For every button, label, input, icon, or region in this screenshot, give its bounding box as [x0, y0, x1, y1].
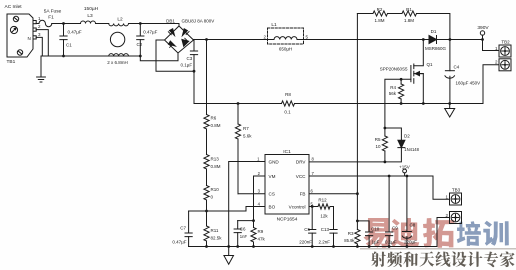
svg-text:0.8M: 0.8M [211, 123, 221, 128]
svg-text:1µF: 1µF [372, 240, 380, 245]
wire fuse to C1 node [52, 23, 81, 25]
svg-text:0.1: 0.1 [284, 110, 291, 115]
svg-text:12k: 12k [320, 214, 328, 219]
svg-text:D2: D2 [404, 134, 410, 139]
svg-text:R11: R11 [211, 228, 219, 233]
svg-text:C13: C13 [321, 227, 330, 232]
watermark big text 易迪拓培训 [364, 218, 391, 248]
svg-text:D1: D1 [431, 29, 437, 34]
svg-text:5.6k: 5.6k [243, 134, 252, 139]
svg-text:Q1: Q1 [427, 62, 434, 67]
watermark small text 射频和天线设计专家 [371, 252, 386, 267]
svg-text:R8: R8 [285, 92, 291, 97]
svg-text:FB: FB [300, 192, 306, 197]
svg-text:R12: R12 [318, 198, 327, 203]
svg-text:CS: CS [269, 192, 275, 197]
svg-text:0.47µF: 0.47µF [172, 240, 186, 245]
wire L3 to L2 [96, 23, 109, 25]
wire to TB2 pin1 [483, 40, 500, 51]
svg-text:GBU8J 8A 800V: GBU8J 8A 800V [182, 18, 215, 23]
svg-text:1nF: 1nF [240, 234, 248, 239]
capacitor C2 0.47uF [139, 22, 142, 25]
svg-text:L1: L1 [271, 22, 277, 28]
svg-text:F1: F1 [48, 15, 54, 21]
svg-text:L3: L3 [87, 13, 93, 19]
svg-text:220nF: 220nF [299, 240, 312, 245]
wire pin4 BO to divider bus [246, 207, 265, 212]
svg-text:Vcontrol: Vcontrol [289, 205, 306, 210]
svg-text:R1: R1 [406, 7, 412, 12]
svg-text:DB1: DB1 [166, 18, 175, 23]
wire pin7 VCC to +15V / TB3 [309, 176, 450, 199]
svg-text:C2: C2 [137, 42, 143, 47]
svg-text:390V: 390V [477, 25, 489, 31]
wire pin1 GND to ground bus [229, 162, 265, 247]
wire pin2 VM down [254, 176, 266, 221]
svg-text:2 x 6.8mH: 2 x 6.8mH [107, 60, 128, 65]
svg-text:C8: C8 [410, 223, 416, 228]
svg-text:MSR860G: MSR860G [425, 46, 447, 51]
svg-text:85.9k: 85.9k [344, 238, 355, 243]
svg-text:47k: 47k [258, 237, 266, 242]
svg-text:1N4148: 1N4148 [404, 147, 419, 152]
svg-text:160µF 450V: 160µF 450V [456, 81, 481, 86]
svg-text:0.1µF: 0.1µF [181, 63, 193, 68]
svg-text:R9: R9 [258, 229, 264, 234]
wire L2 to C2 and bridge [129, 24, 180, 27]
svg-text:0.1µF: 0.1µF [385, 240, 397, 245]
svg-text:TB2: TB2 [501, 40, 510, 45]
svg-text:BO: BO [269, 205, 276, 210]
wire gate [385, 79, 411, 128]
svg-text:C1: C1 [66, 43, 72, 48]
svg-text:N: N [28, 36, 31, 41]
neutral wire [41, 53, 178, 61]
svg-text:NCP1654: NCP1654 [277, 217, 298, 223]
svg-text:R3: R3 [348, 231, 354, 236]
ground symbol control [224, 247, 234, 265]
watermark underline [360, 248, 516, 249]
wire TB1 pin2 to neutral [36, 30, 48, 56]
svg-text:C10: C10 [371, 227, 380, 232]
earth ground below TB1 [37, 56, 46, 82]
connector TB1 [7, 14, 36, 57]
svg-text:AC Inlet: AC Inlet [5, 4, 23, 10]
svg-text:2.2nF: 2.2nF [318, 240, 330, 245]
svg-text:GND: GND [269, 160, 280, 165]
wire TB1 pin1 to fuse [36, 23, 39, 25]
svg-text:R13: R13 [211, 157, 220, 162]
svg-text:1.8M: 1.8M [404, 18, 414, 23]
wire CS filter node [238, 220, 254, 222]
svg-text:R6: R6 [211, 116, 217, 121]
wire pin3 CS to R7 [238, 193, 265, 195]
svg-text:0.8M: 0.8M [211, 164, 221, 169]
svg-text:10: 10 [375, 144, 381, 149]
svg-text:R4: R4 [390, 85, 396, 90]
svg-text:DRV: DRV [296, 160, 307, 165]
capacitor C3 0.1uF [193, 40, 196, 72]
wire pin8 DRV [309, 161, 385, 163]
svg-text:220µF: 220µF [404, 240, 417, 245]
svg-text:0.47µF: 0.47µF [143, 30, 157, 35]
svg-text:5A Fuse: 5A Fuse [44, 9, 62, 15]
wire FB column [356, 14, 358, 230]
svg-text:L2: L2 [117, 17, 123, 23]
wire VM bus [189, 210, 246, 212]
svg-text:SPP20N60S5: SPP20N60S5 [380, 66, 408, 71]
svg-text:TB1: TB1 [7, 59, 16, 65]
svg-text:150µH: 150µH [84, 6, 99, 12]
svg-text:VCC: VCC [296, 174, 306, 179]
svg-text:1.8M: 1.8M [374, 18, 384, 23]
svg-text:R2: R2 [377, 7, 383, 12]
svg-text:82.5k: 82.5k [211, 236, 223, 241]
svg-text:C3: C3 [187, 56, 193, 61]
svg-text:650µH: 650µH [279, 47, 292, 52]
capacitor C1 0.47uF [62, 22, 65, 25]
svg-text:R10: R10 [211, 187, 220, 192]
wire return rail [194, 65, 499, 104]
ground symbol at C4 [445, 104, 455, 118]
wire ground bus [189, 218, 450, 247]
svg-text:C9: C9 [392, 226, 398, 231]
svg-text:C7: C7 [180, 226, 186, 231]
wire main positive rail [194, 39, 483, 41]
wire bridge minus to C3 bottom [156, 40, 194, 71]
svg-text:0.47µF: 0.47µF [68, 30, 82, 35]
svg-text:R5: R5 [375, 137, 381, 142]
wire TB1 pin3 to neutral [36, 37, 42, 56]
wire pin6 FB [309, 193, 357, 195]
svg-text:56k: 56k [389, 91, 397, 96]
wire R1 to output node [417, 14, 450, 40]
svg-text:VM: VM [269, 174, 276, 179]
svg-text:R7: R7 [243, 126, 249, 131]
svg-text:TB3: TB3 [452, 188, 461, 193]
svg-text:C4: C4 [454, 65, 460, 70]
